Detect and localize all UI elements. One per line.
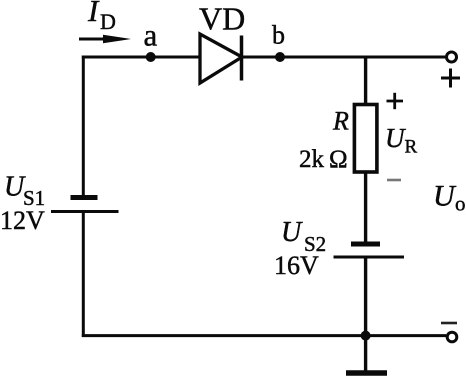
svg-text:R: R	[405, 137, 418, 158]
label U_R	[385, 123, 418, 158]
polarity minus (resistor bottom)	[387, 179, 401, 182]
svg-text:2k Ω: 2k Ω	[299, 146, 348, 173]
polarity plus (output top)	[441, 69, 460, 88]
svg-text:o: o	[455, 192, 466, 216]
svg-text:a: a	[144, 18, 158, 53]
svg-text:U: U	[385, 123, 406, 153]
svg-text:b: b	[272, 21, 285, 50]
label U_o	[433, 180, 466, 216]
svg-text:VD: VD	[199, 1, 245, 37]
battery U_S1	[51, 198, 119, 212]
wire left vertical upper	[82, 56, 85, 197]
svg-text:12V: 12V	[0, 206, 45, 235]
wire bottom horizontal	[82, 334, 446, 337]
svg-text:U: U	[433, 180, 457, 213]
current arrow I_D	[79, 35, 131, 43]
battery U_S2	[334, 244, 405, 257]
polarity plus (resistor top)	[387, 93, 404, 109]
resistor R	[354, 105, 377, 173]
svg-text:I: I	[87, 0, 100, 28]
svg-text:R: R	[332, 107, 349, 136]
wire bottom node to ground	[364, 336, 367, 371]
wire between resistor and battery U_S2	[364, 172, 367, 242]
label U_S2	[281, 217, 326, 256]
terminal - (bottom right)	[447, 332, 457, 342]
wire top-left horizontal segment	[82, 56, 201, 59]
terminal + (top right)	[447, 52, 457, 62]
label I_D	[87, 0, 116, 34]
diode VD	[200, 34, 242, 83]
wire top-right horizontal segment	[241, 56, 446, 59]
node b	[275, 52, 285, 62]
polarity minus (output bottom)	[441, 322, 457, 325]
ground	[346, 370, 387, 376]
wire left vertical lower	[82, 212, 85, 338]
svg-text:16V: 16V	[274, 251, 319, 280]
wire right branch upper	[364, 56, 367, 106]
node junction (bottom)	[361, 331, 371, 341]
node a	[146, 52, 156, 62]
label U_S1	[4, 172, 45, 211]
svg-text:D: D	[100, 9, 116, 34]
wire battery U_S2 to bottom node	[364, 257, 367, 336]
svg-text:U: U	[281, 217, 303, 248]
